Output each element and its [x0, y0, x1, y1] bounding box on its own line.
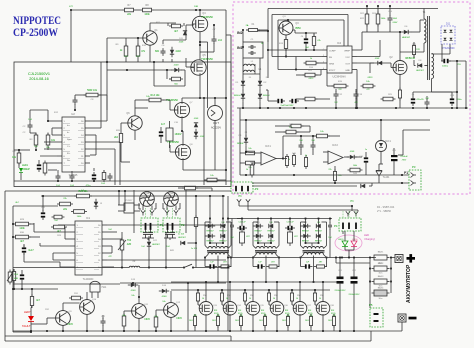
svg-text:1N5404: 1N5404: [262, 95, 270, 97]
mosfet Q17 IRF3205: [293, 302, 307, 316]
magenta dashed border: [233, 2, 470, 194]
wire Q2 em: [134, 130, 136, 140]
caps under connectors: [143, 232, 148, 234]
opamp IC3:1: [261, 152, 276, 165]
caps bottom row: [56, 175, 61, 177]
aux out cap: [441, 44, 443, 61]
svg-text:104: 104: [328, 237, 331, 239]
resistor R23 source: [398, 90, 401, 98]
wire gnd pin down: [356, 70, 358, 109]
opamp IC3:2: [328, 151, 343, 164]
capacitor C7: [212, 38, 217, 40]
snubber R24: [412, 46, 415, 55]
center tap T3: [265, 256, 267, 283]
svg-text:4148: 4148: [162, 296, 168, 298]
LED red fault: [28, 316, 34, 321]
P4 plugs: [346, 211, 350, 214]
plus rail joint: [335, 257, 337, 259]
svg-text:'charging': 'charging': [364, 237, 375, 241]
svg-text:470u/35: 470u/35: [416, 99, 424, 101]
wire Q1 collector: [149, 23, 151, 31]
inductor L2: [129, 266, 139, 267]
svg-text:100k: 100k: [144, 13, 150, 16]
transistor Q11: [132, 304, 147, 319]
connector P3: [231, 182, 253, 193]
IC U2 SG3525: [62, 117, 85, 172]
svg-text:2n2: 2n2: [218, 39, 223, 42]
diode D17: [174, 68, 178, 72]
bridge wires: [242, 58, 244, 78]
varistor P04: [8, 272, 12, 282]
svg-text:4R7: 4R7: [294, 236, 297, 238]
svg-text:IC4: IC4: [337, 41, 342, 45]
section box inverter: [14, 62, 231, 187]
resistor R47: [333, 172, 336, 181]
diode D4 zener: [244, 138, 248, 142]
svg-text:1600V: 1600V: [175, 133, 182, 136]
svg-text:4R7: 4R7: [223, 262, 226, 264]
caps mid: [299, 144, 304, 146]
diode D7: [378, 61, 382, 65]
snubber T4: [305, 264, 307, 268]
svg-text:P3: P3: [412, 165, 416, 169]
svg-text:TW45N50: TW45N50: [201, 15, 213, 19]
wire fb1: [246, 152, 256, 153]
mosfet wires: [322, 282, 324, 302]
svg-text:C945: C945: [176, 318, 182, 320]
resistor R20: [119, 134, 122, 143]
vertical 370 down: [369, 293, 371, 308]
diode D9: [194, 123, 198, 127]
svg-text:682: 682: [155, 50, 160, 53]
wire 332 left: [13, 331, 31, 333]
plus rail 257: [228, 257, 376, 259]
svg-text:-P3: -P3: [254, 187, 259, 191]
thermistor RT1: [120, 240, 124, 250]
svg-text:HA1: HA1: [102, 286, 107, 289]
diode D13: [131, 283, 135, 287]
rectifier group T3: [257, 218, 259, 220]
svg-text:CP-2500W: CP-2500W: [13, 27, 58, 39]
bus 218: [228, 218, 332, 220]
svg-text:30m: 30m: [379, 298, 383, 300]
svg-text:4148: 4148: [175, 50, 181, 53]
svg-text:42R: 42R: [127, 243, 132, 246]
svg-text:IC3:1: IC3:1: [265, 145, 271, 148]
transformer T2: [208, 247, 228, 249]
capacitor C10 4n7-1600V: [166, 128, 173, 141]
capacitor C21: [22, 247, 26, 249]
resistor R30 left: [16, 235, 29, 239]
wire 183 net: [252, 182, 409, 184]
cap C23: [287, 226, 289, 230]
svg-text:3: 3: [323, 62, 324, 64]
resistor R31: [72, 296, 81, 300]
svg-text:BAX1: BAX1: [378, 251, 384, 254]
transformer T1 core: [427, 16, 429, 80]
center tap T2: [217, 256, 219, 283]
capacitor C2: [28, 124, 33, 126]
resistor R4: [46, 135, 50, 145]
transistor Q3 top: [279, 21, 293, 35]
diode D5: [183, 31, 187, 35]
resistor R41: [250, 165, 254, 175]
wire jog 207: [200, 41, 208, 43]
fan M2: [164, 192, 179, 207]
wires vcc: [357, 56, 380, 58]
svg-text:120k: 120k: [19, 227, 25, 230]
junctions net175: [245, 174, 247, 176]
resistor R9: [124, 46, 128, 56]
resistor 4R7 5W: [240, 232, 245, 243]
wire net70: [107, 69, 172, 71]
resistor R12 top: [86, 93, 98, 97]
transistor Q10: [80, 300, 95, 315]
mosfet Q14 IRF3205: [223, 302, 237, 316]
transformer T1 secondary: [432, 53, 434, 78]
junction: [70, 9, 72, 11]
svg-text:1: 1: [323, 49, 324, 51]
aux out wires: [465, 61, 467, 108]
resistor R29 left: [16, 222, 29, 226]
resistor R38: [74, 210, 85, 214]
shunt BAX2: [374, 266, 387, 271]
resistor R34: [154, 317, 158, 327]
gate resistor Q14: [220, 293, 223, 301]
LED charging ellipse: [335, 235, 362, 251]
gate resistor Q13: [196, 293, 199, 301]
svg-text:IN1: IN1: [237, 46, 243, 50]
capacitor C8: [73, 99, 78, 101]
svg-text:HER107: HER107: [402, 37, 411, 39]
resistor R5: [17, 153, 21, 163]
resistor R46: [304, 158, 307, 167]
mosfet Q7 TW45N50: [174, 102, 189, 117]
svg-text:1k: 1k: [305, 155, 307, 157]
svg-text:2k2: 2k2: [114, 136, 119, 139]
svg-text:104: 104: [141, 246, 144, 248]
buzzer HA1: [90, 281, 100, 284]
source resistors: [193, 317, 196, 326]
resistor R21 fb: [306, 61, 316, 65]
shunt BAX3: [374, 279, 387, 284]
wire to out: [182, 97, 226, 99]
svg-text:10k: 10k: [248, 148, 251, 150]
svg-text:10k: 10k: [162, 301, 165, 303]
wires U2 left side: [48, 120, 57, 122]
diode D18: [94, 202, 98, 206]
svg-text:IC2:1: IC2:1: [385, 140, 391, 143]
mosfet Q8 TW45N50: [175, 144, 190, 159]
plug OUT AC220V: [208, 106, 223, 121]
mosfet wires: [276, 282, 278, 302]
svg-text:P5: P5: [369, 303, 373, 307]
P3 plugs: [237, 199, 241, 202]
ground bus 108: [237, 107, 468, 109]
wire right vert 403: [402, 130, 404, 155]
svg-text:TL494CN: TL494CN: [83, 278, 94, 281]
transformer T3: [256, 247, 276, 249]
blue dashed bridge: [441, 26, 455, 44]
svg-text:104: 104: [166, 246, 169, 248]
input resistor R40: [246, 161, 255, 165]
svg-text:OUT: OUT: [345, 64, 350, 66]
fan M2 bracket: [162, 203, 164, 209]
caps C12 C13: [334, 93, 339, 95]
LED wires: [344, 231, 346, 241]
resistor R8: [143, 8, 152, 12]
svg-text:C945: C945: [67, 324, 73, 326]
svg-text:4148: 4148: [131, 290, 137, 292]
bus verticals: [4, 336, 6, 341]
fan M1 wires: [142, 206, 144, 211]
svg-text:'FAULT': 'FAULT': [22, 324, 31, 328]
svg-text:PC817: PC817: [126, 200, 133, 202]
svg-text:C22 1uF: C22 1uF: [238, 222, 246, 224]
svg-text:IC1: IC1: [86, 216, 91, 220]
capacitor C14: [388, 17, 393, 19]
fan M1: [140, 192, 155, 207]
resistor R37 top: [185, 186, 196, 190]
svg-text:4R7: 4R7: [319, 262, 322, 264]
wire in2 path: [258, 29, 268, 31]
fuse join: [258, 30, 268, 32]
vert feeds 119 125: [118, 191, 120, 205]
svg-text:4k7: 4k7: [20, 240, 25, 243]
svg-text:'POWER': 'POWER': [20, 168, 30, 171]
capacitor C20: [41, 212, 45, 214]
svg-text:4148: 4148: [174, 65, 180, 67]
wire hbus 284: [13, 283, 120, 285]
capacitor C9: [108, 175, 113, 177]
wires q11: [124, 310, 132, 312]
capacitor C24: [20, 274, 24, 276]
svg-text:T04: T04: [127, 239, 132, 242]
q3 emitter net: [292, 29, 295, 31]
LED red in ellipse: [351, 241, 357, 246]
fan plugs: [141, 210, 145, 213]
loop inner: [278, 19, 344, 21]
LED green in ellipse: [342, 241, 348, 246]
wires q9 q10: [47, 317, 56, 319]
wire P2 down: [165, 233, 167, 268]
transistor Q1: [143, 31, 157, 45]
minus wire: [401, 322, 403, 331]
svg-text:2200uF/35V: 2200uF/35V: [349, 294, 361, 296]
svg-text:COMP: COMP: [329, 51, 336, 53]
mosfet Q18 IRF3205: [316, 302, 330, 316]
fan box: [133, 190, 135, 233]
LED green power: [19, 168, 23, 172]
resistor R6: [43, 163, 47, 173]
wires TL494 left: [58, 224, 70, 226]
svg-text:BAX3: BAX3: [378, 275, 384, 278]
cap C22: [239, 226, 241, 230]
resistor R13: [149, 98, 161, 102]
big cap 2200uF: [391, 155, 398, 157]
IC4 left wires: [268, 49, 322, 51]
svg-text:HER307: HER307: [152, 244, 160, 246]
svg-text:10k: 10k: [154, 316, 157, 318]
wire vert 204: [203, 98, 205, 185]
svg-text:4R7: 4R7: [246, 236, 249, 238]
shunt BAX4: [374, 290, 387, 296]
diode D12: [147, 242, 151, 246]
resistor R44: [291, 124, 301, 128]
rtct parts: [334, 84, 346, 88]
mosfet Q13 IRF3205: [199, 302, 213, 316]
wire mosfet chain: [199, 10, 201, 16]
wire Q1 emitter: [149, 45, 151, 62]
resistor R45: [292, 156, 295, 165]
svg-text:2x 103: 2x 103: [178, 234, 185, 236]
transistor Q2: [128, 116, 142, 130]
transistor Q12: [164, 303, 179, 318]
rectifier group T4: [305, 218, 307, 220]
svg-text:D1 - 9NBT-044: D1 - 9NBT-044: [377, 205, 395, 209]
green dotted pins: [145, 208, 147, 218]
svg-text:R.t.: R.t.: [67, 152, 71, 155]
section2 left edge: [4, 191, 6, 336]
blue bridge diodes: [443, 30, 446, 33]
svg-text:30m: 30m: [379, 263, 383, 265]
wire P3 right 2: [247, 205, 249, 211]
switch SW1: [183, 267, 185, 269]
section2 inner left wire: [12, 206, 14, 332]
wire hbus190 283: [120, 282, 226, 284]
resistor R32: [30, 297, 33, 306]
wire 175 net: [240, 174, 409, 176]
svg-text:TW45N50: TW45N50: [166, 98, 178, 102]
svg-text:U2: U2: [71, 112, 75, 116]
wire row 132: [285, 131, 287, 133]
snubber T2: [209, 264, 211, 268]
resistor R42: [286, 130, 296, 134]
svg-text:2: 2: [323, 55, 324, 57]
svg-text:TL431: TL431: [383, 176, 390, 179]
TL431: [376, 171, 382, 176]
filter box: [243, 42, 263, 58]
svg-text:2*1 - SB050: 2*1 - SB050: [377, 209, 392, 213]
wires q12: [156, 309, 164, 311]
svg-text:CJL21500V1: CJL21500V1: [28, 72, 50, 76]
svg-text:2200uF: 2200uF: [400, 156, 408, 158]
resistor R36: [12, 272, 15, 281]
svg-text:UC3843AN: UC3843AN: [332, 75, 345, 79]
svg-text:LED: LED: [364, 233, 369, 237]
resistor R25: [77, 194, 90, 198]
svg-text:DTS20A600: DTS20A600: [441, 47, 455, 50]
rectifier group T2: [209, 218, 211, 220]
wire vertical 188: [187, 283, 189, 331]
res r on bus: [305, 97, 315, 101]
bridge diodes D1-D4: [241, 81, 245, 85]
svg-text:1000u: 1000u: [442, 66, 449, 68]
svg-text:10R: 10R: [194, 6, 198, 8]
svg-text:4R7: 4R7: [271, 262, 274, 264]
minus symbol: [409, 317, 417, 320]
diode D10: [194, 132, 198, 136]
svg-text:1N5404: 1N5404: [233, 95, 241, 97]
cap right edge: [328, 224, 332, 226]
mosfet wires: [229, 282, 231, 302]
drain bus 282: [171, 281, 340, 283]
svg-text:4n7: 4n7: [161, 123, 166, 126]
aux resistors 100k: [365, 14, 369, 24]
diode D3: [170, 50, 174, 54]
svg-text:2200uF/35V: 2200uF/35V: [335, 290, 347, 292]
svg-text:LED1: LED1: [22, 164, 29, 167]
mosfet Q15 IRF3205: [246, 302, 260, 316]
diode D16: [361, 184, 365, 188]
svg-text:BAX4: BAX4: [378, 287, 384, 290]
resistor feed: [194, 218, 197, 227]
svg-text:5WR 10k: 5WR 10k: [87, 89, 98, 92]
resistor R50: [207, 178, 217, 182]
svg-text:TW45N50: TW45N50: [167, 140, 179, 144]
caps on ground bus: [411, 98, 415, 100]
wire opamp top rail: [240, 119, 430, 121]
aux top rail: [268, 8, 438, 10]
svg-text:LED6: LED6: [352, 239, 358, 241]
resistor R48: [350, 168, 360, 172]
caps mid right: [337, 277, 344, 280]
fan M1 bracket: [138, 203, 140, 209]
resistor R35: [172, 77, 181, 81]
wire left bus: [29, 110, 31, 122]
wire hbus 289: [13, 288, 58, 290]
svg-text:22R: 22R: [416, 49, 420, 51]
wire right edge: [230, 35, 232, 185]
resistor R17: [312, 37, 315, 46]
svg-text:30m: 30m: [379, 273, 383, 275]
fuse F1: [249, 29, 258, 32]
resistor R26: [60, 202, 71, 206]
mosfet Q2 IRFBC40: [393, 61, 407, 75]
diode D14: [162, 289, 166, 293]
choke L1: [244, 64, 255, 66]
resistor R27: [54, 215, 62, 219]
cap join wires: [142, 237, 154, 239]
resistor R10: [136, 46, 140, 56]
resistor R28: [54, 225, 65, 229]
resistor R3: [34, 135, 38, 145]
IC2 TL494: [75, 221, 102, 275]
svg-text:GND: GND: [345, 70, 350, 72]
diode D6 HER107: [404, 30, 408, 34]
q3 collector net: [295, 57, 297, 70]
plus terminal: [395, 255, 403, 263]
svg-text:43R: 43R: [14, 278, 18, 280]
IC4 UC3843: [327, 46, 352, 73]
filter caps: [250, 45, 252, 49]
svg-text:C945: C945: [144, 319, 150, 321]
resistor R33: [122, 316, 126, 326]
center tap T4: [313, 256, 315, 283]
svg-text:4k7: 4k7: [174, 30, 179, 33]
gate resistor Q16: [267, 293, 270, 301]
feed wires T2 from above: [209, 196, 211, 219]
svg-text:R13 10k: R13 10k: [151, 94, 161, 97]
wire base node: [125, 38, 127, 46]
wire vert left feed: [70, 10, 72, 62]
svg-text:0u47: 0u47: [28, 249, 34, 252]
q3 base from top: [287, 19, 289, 21]
loop outer vertical: [267, 9, 269, 79]
resistor 4R7 5W b: [288, 232, 293, 243]
wire switch row: [140, 267, 184, 269]
svg-text:100k: 100k: [353, 165, 357, 167]
